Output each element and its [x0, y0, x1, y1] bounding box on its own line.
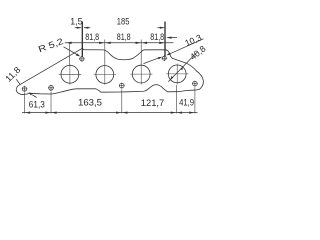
- arrows: [66, 42, 71, 44]
- leader 10,3 through H5: [144, 39, 204, 64]
- port center crosshairs: [59, 64, 189, 85]
- chain dim line y=42.8: [65, 42, 174, 44]
- port circle C1: [61, 65, 79, 83]
- bolt hole H1 (tip): [22, 56, 197, 91]
- svg-text:1,5: 1,5: [70, 16, 82, 26]
- svg-text:81,8: 81,8: [85, 32, 99, 42]
- leader 40,8 through C4: [168, 52, 197, 82]
- bolt hole crosshairs: [22, 55, 198, 92]
- 10,3 stub right of vertical: [166, 36, 177, 38]
- top small-dim extension verticals (thick): [82, 22, 165, 57]
- svg-text:61,3: 61,3: [29, 100, 45, 110]
- leader R 5,2: [64, 47, 81, 57]
- port circle C4: [168, 65, 186, 83]
- svg-text:185: 185: [117, 16, 130, 26]
- gasket outline: [16, 49, 203, 95]
- dim line 1,5 / 185 row (y=27.7): [75, 27, 165, 29]
- extension verticals light: [25, 40, 195, 114]
- bottom dim line y=112.6: [22, 111, 198, 113]
- leader 11,8: [16, 79, 36, 97]
- svg-text:163,5: 163,5: [78, 98, 102, 108]
- svg-text:81,8: 81,8: [117, 32, 131, 42]
- svg-text:41,9: 41,9: [179, 98, 194, 108]
- port circle C3: [132, 65, 150, 83]
- svg-text:81,8: 81,8: [150, 32, 164, 42]
- port circle C2: [96, 66, 114, 84]
- svg-text:121,7: 121,7: [141, 98, 165, 108]
